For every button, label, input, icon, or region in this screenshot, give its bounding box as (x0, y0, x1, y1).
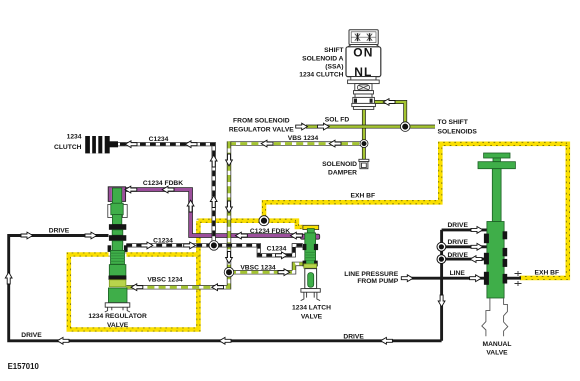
arrow on bottom DRIVE (left) 3 (381, 337, 393, 344)
svg-text:C1234: C1234 (267, 246, 287, 253)
svg-text:C1234: C1234 (153, 238, 173, 245)
svg-text:REGULATOR VALVE: REGULATOR VALVE (229, 126, 294, 133)
arrow on C1234 segment 2 (right) (276, 252, 288, 259)
shift solenoid A (SSA) body (346, 30, 381, 110)
wire VBS 1234 green dashed horizontal (229, 141, 364, 145)
manual valve (478, 153, 515, 336)
1234 regulator valve (105, 187, 130, 312)
wire LINE through manual valve to EXH BF (504, 277, 521, 280)
svg-text:VBSC 1234: VBSC 1234 (147, 277, 183, 284)
arrow on green dashed vertical (down) (226, 154, 233, 166)
svg-text:C1234 FDBK: C1234 FDBK (250, 228, 290, 235)
arrow on C1234 clutch (left) 2 (185, 141, 197, 148)
svg-text:E157010: E157010 (8, 362, 40, 371)
wire C1234 black dashed from regulator valve to latch valve (126, 245, 302, 255)
svg-text:FROM SOLENOID: FROM SOLENOID (233, 117, 290, 124)
svg-text:DRIVE: DRIVE (49, 227, 70, 234)
svg-text:SOLENOIDS: SOLENOIDS (438, 129, 478, 136)
arrow on LINE (right) (470, 275, 482, 282)
svg-text:LINE PRESSURE: LINE PRESSURE (344, 271, 398, 278)
arrow on purple top (left) (125, 186, 137, 193)
arrow on green to solenoid (left) (383, 99, 395, 106)
wire EXH BF center horizontal to junction (197, 219, 266, 222)
arrow on DRIVE 1 (right) (471, 227, 483, 234)
label FROM SOLENOID REGULATOR VALVE (229, 117, 294, 133)
svg-text:CLUTCH: CLUTCH (54, 144, 82, 151)
svg-text:NL: NL (354, 65, 372, 79)
arrow on VBSC right (right) (278, 269, 290, 276)
node junction dot SOL FD (400, 122, 410, 132)
arrow outline after LINE PRESSURE label (401, 275, 413, 282)
arrow on VBS 1234 (left) 2 (329, 140, 341, 147)
svg-text:DRIVE: DRIVE (343, 333, 364, 340)
svg-text:EXH BF: EXH BF (535, 269, 560, 276)
svg-text:1234 LATCH: 1234 LATCH (292, 304, 331, 311)
svg-text:VALVE: VALVE (486, 349, 508, 356)
arrow on purple horizontal (left) (236, 232, 248, 239)
svg-text:SOLENOID: SOLENOID (322, 161, 357, 168)
arrow on green dashed vertical (down) 3 (226, 252, 233, 264)
wire C1234 black dashed from clutch (110, 144, 214, 245)
label SOLENOID DAMPER (322, 161, 357, 177)
arrow on C1234 vertical (up) (210, 155, 217, 167)
svg-text:VBS 1234: VBS 1234 (288, 135, 319, 142)
svg-text:(SSA): (SSA) (325, 64, 343, 71)
1234 latch valve (301, 225, 321, 300)
svg-text:VALVE: VALVE (301, 314, 323, 321)
node junction dot VBS/damper (360, 140, 368, 148)
arrow on purple vertical (up) (187, 200, 194, 212)
label 1234 CLUTCH left (54, 134, 82, 152)
arrow on purple top (left) 2 (162, 186, 174, 193)
svg-text:1234 REGULATOR: 1234 REGULATOR (88, 313, 147, 320)
arrow on top DRIVE (right) 2 (85, 232, 97, 239)
arrow on DRIVE 3 (left) (470, 256, 482, 263)
svg-text:VALVE: VALVE (107, 322, 129, 329)
wire VBSC 1234 green dashed to latch valve (229, 264, 303, 272)
svg-text:DRIVE: DRIVE (447, 222, 468, 229)
wire C1234 FDBK purple from regulator valve to latch valve (123, 190, 303, 236)
node junction dot C1234 (209, 241, 219, 251)
arrow on DRIVE 2 (right) (471, 243, 483, 250)
arrow on C1234 regulator (right) (141, 242, 153, 249)
solenoid damper symbol (359, 159, 369, 168)
svg-text:C1234: C1234 (149, 136, 169, 143)
label SHIFT SOLENOID A (SSA) 1234 CLUTCH (299, 47, 344, 79)
arrow on manual vertical (down) (438, 295, 445, 307)
svg-text:FROM PUMP: FROM PUMP (357, 278, 398, 285)
node junction dot DRIVE 3 (437, 255, 446, 264)
arrow on VBS 1234 (left) (261, 140, 273, 147)
wire green vertical solenoid to damper (362, 109, 366, 160)
arrow outline after FROM SOLENOID label (296, 123, 308, 130)
svg-text:DRIVE: DRIVE (447, 239, 468, 246)
label MANUAL VALVE (483, 341, 512, 357)
arrow on green dashed vertical (down) 2 (226, 201, 233, 213)
svg-text:DRIVE: DRIVE (447, 252, 468, 259)
arrow on SOL FD (right) (318, 123, 330, 130)
label 1234 LATCH VALVE (292, 304, 331, 320)
svg-text:EXH BF: EXH BF (351, 192, 376, 199)
wire green dashed vertical (227, 141, 231, 272)
wire green solid from solenoid right side (373, 102, 406, 127)
clutch 1234 symbol (85, 136, 118, 153)
label TO SHIFT SOLENOIDS (438, 119, 478, 136)
node junction dot DRIVE 2 (437, 242, 446, 251)
wire EXH BF path to right yellow box and manual valve (262, 142, 569, 279)
svg-text:TO SHIFT: TO SHIFT (438, 119, 469, 126)
wire SOL FD green horizontal (306, 125, 435, 129)
arrow on C1234 clutch (left) (125, 141, 137, 148)
svg-text:MANUAL: MANUAL (483, 341, 512, 348)
arrow on purple horizontal (left) 2 (291, 232, 303, 239)
wire DRIVE 2 to manual valve (442, 245, 487, 248)
arrow on C1234 regulator (right) 2 (184, 242, 196, 249)
svg-text:SOL FD: SOL FD (325, 116, 350, 123)
svg-text:VBSC 1234: VBSC 1234 (240, 265, 276, 272)
wire DRIVE black left loop (9, 236, 442, 341)
arrow on C1234 vertical (up) 2 (210, 196, 217, 208)
svg-text:DRIVE: DRIVE (21, 332, 42, 339)
svg-text:SHIFT: SHIFT (324, 47, 344, 54)
arrow on VBSC left segment (left) 2 (131, 284, 143, 291)
arrow on bottom DRIVE (left) (57, 337, 69, 344)
wire LINE to manual valve (410, 277, 487, 280)
wire yellow branch to latch valve top (262, 219, 304, 228)
wire black vertical at manual valve (440, 230, 443, 341)
svg-text:1234 CLUTCH: 1234 CLUTCH (299, 72, 343, 79)
arrow on bottom DRIVE (left) 2 (219, 337, 231, 344)
svg-text:ON: ON (353, 46, 373, 60)
node junction dot VBSC (224, 267, 234, 277)
svg-text:SOLENOID A: SOLENOID A (302, 56, 344, 63)
wire VBSC 1234 green dashed to regulator valve (126, 272, 229, 287)
vent cross marks at EXH BF (515, 271, 522, 286)
label 1234 REGULATOR VALVE (88, 313, 147, 329)
wire EXH yellow box around regulator valve (67, 219, 200, 331)
wire DRIVE 1 to manual valve (442, 228, 487, 231)
svg-text:C1234 FDBK: C1234 FDBK (143, 180, 183, 187)
svg-text:DAMPER: DAMPER (328, 170, 357, 177)
arrow on left vertical (up) (5, 272, 12, 284)
node junction dot EXH BF (259, 216, 269, 226)
wire DRIVE 3 to manual valve (442, 258, 487, 261)
label LINE PRESSURE FROM PUMP (344, 271, 398, 285)
svg-text:1234: 1234 (67, 134, 82, 141)
arrow on top DRIVE (right) (21, 232, 33, 239)
svg-text:LINE: LINE (450, 270, 466, 277)
arrow on VBSC left segment (left) (212, 284, 224, 291)
